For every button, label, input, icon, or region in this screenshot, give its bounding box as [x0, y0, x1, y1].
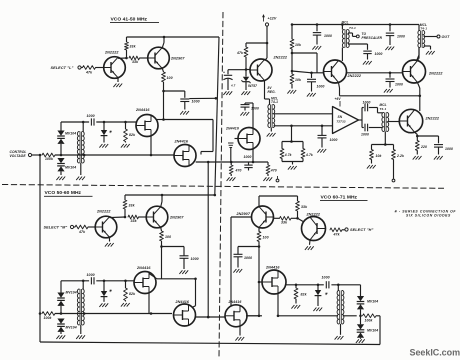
svg-text:1000: 1000: [251, 107, 259, 111]
svg-text:2N4416: 2N4416: [175, 300, 190, 304]
svg-text:2N2907: 2N2907: [169, 216, 184, 220]
svg-text:MCL: MCL: [342, 21, 349, 25]
svg-text:100: 100: [165, 235, 171, 239]
svg-text:2N2222: 2N2222: [347, 74, 362, 78]
svg-text:72733: 72733: [337, 120, 346, 124]
svg-text:470: 470: [235, 169, 242, 173]
svg-text:SN: SN: [338, 115, 343, 119]
svg-text:4.7k: 4.7k: [284, 153, 292, 157]
svg-text:2N2222: 2N2222: [306, 212, 321, 216]
svg-text:47k: 47k: [85, 71, 93, 75]
svg-text:1000: 1000: [87, 114, 95, 118]
svg-text:MV104: MV104: [367, 329, 378, 333]
svg-text:1000: 1000: [322, 276, 330, 280]
svg-text:OUT: OUT: [442, 35, 451, 39]
svg-text:T4-1: T4-1: [380, 107, 387, 111]
svg-text:MV104: MV104: [65, 132, 76, 136]
svg-text:82k: 82k: [301, 293, 308, 297]
svg-text:82k: 82k: [129, 133, 136, 137]
svg-text:100k: 100k: [365, 319, 374, 323]
svg-text:33k: 33k: [132, 60, 139, 64]
svg-text:MV104: MV104: [367, 300, 378, 304]
svg-text:2N2222: 2N2222: [104, 51, 119, 55]
svg-text:1000: 1000: [397, 35, 405, 39]
svg-text:10k: 10k: [295, 78, 302, 82]
svg-text:33k: 33k: [129, 204, 136, 208]
svg-text:+: +: [223, 71, 225, 75]
svg-text:4.7: 4.7: [230, 83, 236, 87]
svg-text:T4-1: T4-1: [271, 100, 278, 104]
svg-text:1000: 1000: [324, 34, 332, 38]
svg-text:SELECT "M": SELECT "M": [44, 226, 68, 230]
svg-text:1000: 1000: [191, 257, 199, 261]
svg-text:10k: 10k: [376, 154, 383, 158]
svg-text:100: 100: [263, 236, 269, 240]
svg-text:2N2907: 2N2907: [170, 57, 185, 61]
svg-text:1000: 1000: [375, 52, 383, 56]
svg-text:100k: 100k: [45, 157, 54, 161]
svg-text:33k: 33k: [131, 219, 138, 223]
svg-text:2N4416: 2N4416: [174, 140, 189, 144]
svg-text:+12V: +12V: [268, 17, 277, 21]
svg-text:SeekIC.com: SeekIC.com: [410, 347, 460, 357]
svg-text:2N2222: 2N2222: [96, 210, 111, 214]
svg-text:2N2222: 2N2222: [273, 56, 288, 60]
svg-text:PRESCALER: PRESCALER: [362, 36, 383, 40]
svg-text:10k: 10k: [295, 43, 302, 47]
svg-text:1000: 1000: [192, 100, 200, 104]
svg-text:4.7k: 4.7k: [305, 153, 313, 157]
svg-text:33k: 33k: [281, 221, 288, 225]
svg-text:82k: 82k: [129, 292, 136, 296]
svg-text:470: 470: [270, 169, 277, 173]
svg-text:1000: 1000: [317, 85, 325, 89]
svg-text:2N4416: 2N4416: [225, 127, 239, 131]
svg-text:100: 100: [167, 76, 173, 80]
svg-text:VOLTAGE: VOLTAGE: [10, 154, 27, 158]
svg-text:VCO 50-60 MHz: VCO 50-60 MHz: [45, 190, 82, 196]
svg-text:T4-1: T4-1: [420, 27, 427, 31]
svg-text:2N4416: 2N4416: [228, 300, 242, 304]
svg-text:2N2907: 2N2907: [235, 212, 250, 216]
svg-text:33k: 33k: [130, 45, 137, 49]
svg-text:IN757: IN757: [248, 84, 257, 88]
svg-text:VCO 60-71 MHz: VCO 60-71 MHz: [321, 195, 358, 201]
svg-text:1000: 1000: [361, 133, 369, 137]
svg-text:T4-1: T4-1: [349, 26, 356, 30]
svg-text:47k: 47k: [78, 230, 86, 234]
svg-text:2.2k: 2.2k: [396, 154, 405, 158]
svg-text:MV104: MV104: [65, 166, 76, 170]
svg-text:2N2222: 2N2222: [425, 117, 440, 121]
svg-text:2N4416: 2N4416: [135, 108, 150, 112]
svg-text:REG.: REG.: [268, 90, 276, 94]
svg-text:47k: 47k: [236, 51, 244, 55]
svg-text:MV104: MV104: [66, 291, 77, 295]
svg-text:+6V: +6V: [335, 97, 342, 101]
svg-text:1000: 1000: [244, 256, 252, 260]
svg-text:2N4416: 2N4416: [136, 266, 151, 270]
svg-text:MV104: MV104: [66, 326, 77, 330]
svg-text:1000: 1000: [445, 147, 453, 151]
svg-text:1000: 1000: [395, 83, 403, 87]
svg-text:1000: 1000: [363, 101, 371, 105]
svg-text:1000: 1000: [87, 273, 95, 277]
svg-text:2N2222: 2N2222: [428, 72, 443, 76]
svg-text:1000: 1000: [330, 138, 338, 142]
svg-text:2N4416: 2N4416: [265, 266, 280, 270]
svg-text:1000: 1000: [244, 155, 252, 159]
svg-text:SELECT "L": SELECT "L": [51, 66, 74, 70]
svg-text:SIX SILICON DIODES: SIX SILICON DIODES: [406, 213, 451, 217]
svg-text:33k: 33k: [301, 205, 308, 209]
svg-text:SELECT "H": SELECT "H": [350, 228, 373, 232]
svg-text:220: 220: [420, 145, 427, 149]
svg-text:47k: 47k: [333, 232, 341, 236]
svg-text:VCO 41-50 MHz: VCO 41-50 MHz: [111, 17, 148, 23]
svg-text:100k: 100k: [44, 316, 53, 320]
